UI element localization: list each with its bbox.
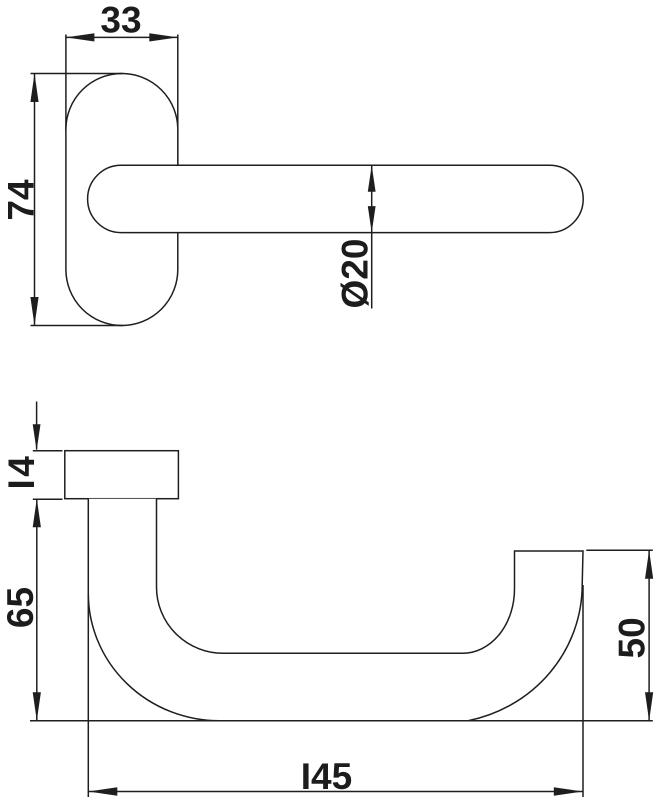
svg-text:65: 65: [0, 587, 41, 628]
arrowhead 33 left: [66, 33, 95, 41]
extension line 145 left: [87, 594, 89, 797]
dimension line 145: [88, 791, 583, 793]
arrowhead 74 up: [30, 74, 38, 103]
svg-text:I45: I45: [301, 756, 352, 797]
svg-text:I4: I4: [1, 454, 42, 490]
extension line 145 right: [582, 585, 584, 797]
bottom reference line: [30, 720, 653, 722]
rosette front view: [66, 74, 178, 326]
arrowhead 65 up: [33, 499, 41, 528]
extension line 74 bottom: [31, 325, 124, 327]
rosette side view: [65, 451, 179, 499]
dimension line 74: [34, 74, 36, 326]
svg-text:74: 74: [1, 179, 42, 221]
svg-text:Ø20: Ø20: [335, 239, 376, 309]
extension tick 14 top: [33, 450, 63, 452]
extension line 33 left: [65, 35, 67, 132]
arrowhead 74 down: [30, 297, 38, 326]
arrowhead 145 left: [88, 787, 117, 795]
dimension line 65: [36, 499, 38, 721]
extension line 50 top: [586, 549, 653, 551]
dimension 14 top arrow leader: [36, 402, 38, 450]
extension line 74 top: [31, 73, 123, 75]
extension line 33 right: [177, 35, 179, 166]
arrowhead d20 up: [368, 165, 376, 192]
dimension line diameter 20: [371, 165, 373, 308]
extension tick 14 bottom: [33, 498, 63, 500]
arrowhead 33 right: [149, 33, 178, 41]
arrowhead 14 down: [33, 424, 41, 451]
lever handle front view: [88, 165, 584, 232]
dimension line 50: [648, 550, 650, 721]
svg-text:33: 33: [100, 0, 141, 41]
arrowhead 145 right: [554, 787, 583, 795]
svg-text:50: 50: [612, 617, 653, 658]
arrowhead 50 up: [645, 550, 653, 579]
arrowhead d20 down: [368, 206, 376, 233]
arrowhead 50 down: [645, 692, 653, 721]
lever handle side profile: [88, 499, 583, 721]
dimension line 33: [66, 36, 178, 38]
arrowhead 65 down: [33, 692, 41, 721]
